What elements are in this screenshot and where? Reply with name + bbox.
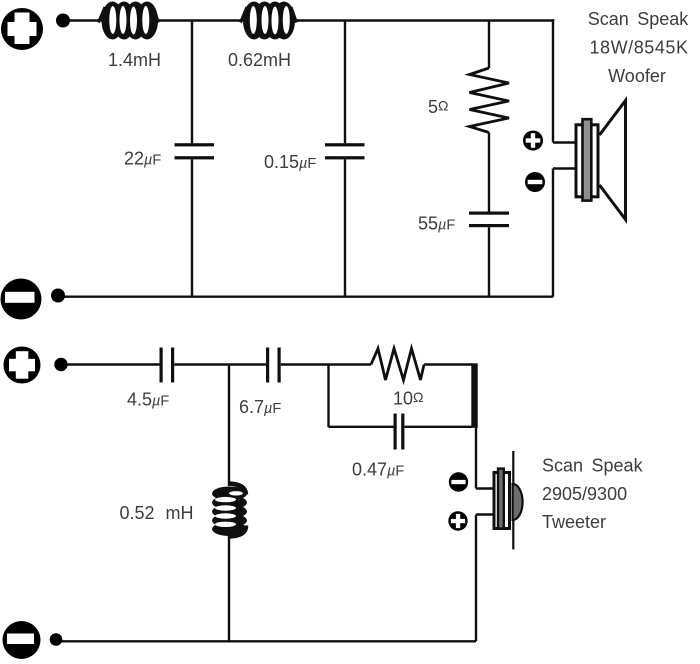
capacitor C5 6.7uF (series) <box>266 348 281 383</box>
wire <box>67 363 160 365</box>
capacitor C3 55uF <box>469 212 509 297</box>
capacitor C6 0.47uF (series, parallel branch) <box>394 414 405 450</box>
node dot (woofer - input) <box>51 289 65 303</box>
plus mark (tweeter +) <box>448 511 467 530</box>
svg-text:0.52 mH: 0.52 mH <box>120 503 194 523</box>
minus mark (woofer -) <box>525 172 545 192</box>
capacitor C2 0.15uF (shunt) <box>325 21 365 297</box>
node dot (tweeter + input) <box>54 358 67 371</box>
capacitor C1 22uF (shunt) <box>175 21 215 297</box>
inductor L3 0.52mH (vertical coil) <box>212 365 247 642</box>
wire (bottom lead of C2 to return rail) <box>344 159 346 296</box>
terminal - (tweeter input negative) <box>3 621 41 659</box>
terminal + (tweeter input positive) <box>4 347 41 384</box>
woofer cone <box>600 101 626 220</box>
wire <box>69 19 104 21</box>
plate (C6 right) <box>401 414 404 450</box>
tweeter dome <box>513 484 523 520</box>
node bar (right side of RC block, thick) <box>471 363 477 428</box>
bottom rail (tweeter return) <box>60 640 476 642</box>
woofer magnet bar <box>583 119 592 200</box>
svg-text:1.4mH: 1.4mH <box>108 50 161 70</box>
wire (left drop of RC block) <box>327 365 329 428</box>
minus mark (tweeter -) <box>449 472 468 491</box>
wire (+ lead to tweeter) <box>476 513 493 515</box>
wire (top rail to right corner) <box>297 19 554 21</box>
svg-text:Tweeter: Tweeter <box>542 512 606 532</box>
wire (R1 to C3) <box>488 133 490 212</box>
wire (- lead from woofer) <box>553 167 576 169</box>
plate (C2 bottom) <box>325 156 365 159</box>
wire (bottom branch left) <box>329 426 394 428</box>
wire (bottom lead of C1 to return rail) <box>191 159 193 296</box>
wire (right drop from top rail to + lead) <box>552 19 554 142</box>
svg-text:0.62mH: 0.62mH <box>228 50 291 70</box>
resistor R2 10ohm (horizontal zigzag) <box>371 349 424 381</box>
plate (C3 top) <box>469 212 509 215</box>
resistor R1 5ohm (vertical zigzag) <box>470 21 510 212</box>
terminal - (woofer input negative) <box>1 279 42 320</box>
wire (node B junction down to L3) <box>228 365 230 487</box>
speaker tweeter symbol <box>494 451 523 550</box>
wire <box>157 19 245 21</box>
plate (C5 left) <box>266 348 269 383</box>
plate (C5 right) <box>278 348 281 383</box>
wire (drop from + lead to bottom rail) <box>475 515 477 642</box>
svg-text:Scan Speak: Scan Speak <box>542 456 644 476</box>
wire (top lead of C2) <box>344 21 346 144</box>
wire <box>424 363 472 365</box>
tweeter magnet bar <box>498 469 504 529</box>
tweeter driver frame <box>494 473 510 529</box>
tweeter faceplate line <box>512 451 514 550</box>
node dot (tweeter - input) <box>50 633 63 646</box>
wire (right drop to bottom rail) <box>552 169 554 297</box>
svg-text:Scan Speak: Scan Speak <box>588 9 690 29</box>
plus mark (woofer +) <box>523 131 543 151</box>
bottom rail (woofer return) <box>60 296 553 298</box>
inductor L2 0.62mH <box>241 2 297 40</box>
svg-text:2905/9300: 2905/9300 <box>542 484 627 504</box>
capacitor C4 4.5uF (series) <box>160 348 175 383</box>
wire (L3 bottom lead to return rail) <box>228 535 230 641</box>
terminal + (woofer input positive) <box>1 8 43 50</box>
wire <box>174 363 266 365</box>
plate (C1 top) <box>175 143 215 146</box>
wire (bottom branch right) <box>404 426 472 428</box>
speaker woofer symbol <box>576 101 626 220</box>
woofer driver frame <box>576 125 598 197</box>
plate (C4 right) <box>171 348 174 383</box>
svg-text:18W/8545K: 18W/8545K <box>589 38 688 58</box>
wire <box>281 363 371 365</box>
plate (C2 top) <box>325 143 365 146</box>
wire (+ lead to woofer) <box>553 141 576 143</box>
inductor L1 1.4mH <box>99 2 159 40</box>
wire (top lead of C1 from node A) <box>191 21 193 144</box>
plate (C1 bottom) <box>175 156 215 159</box>
wire (- lead to tweeter) <box>476 487 493 489</box>
wire (drop from RC block to - lead) <box>475 427 477 489</box>
plate (C6 left) <box>394 414 397 450</box>
plate (C3 bottom) <box>469 224 509 227</box>
resistor body R1 zigzag <box>470 68 510 133</box>
plate (C4 left) <box>160 348 163 383</box>
svg-text:Woofer: Woofer <box>608 66 666 86</box>
node dot (woofer + input) <box>56 14 70 28</box>
wire (top lead of R1 from top rail) <box>488 21 490 69</box>
wire (bottom lead of C3 to return rail) <box>488 227 490 297</box>
coil body L3 <box>229 484 247 495</box>
